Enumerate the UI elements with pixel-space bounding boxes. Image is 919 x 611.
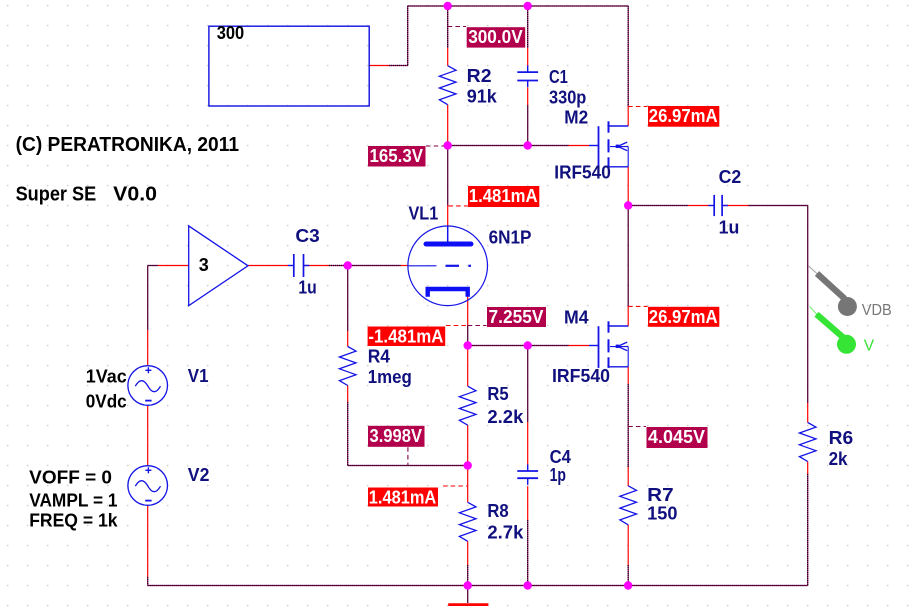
wire input column maroon [147, 266, 149, 331]
svg-text:1Vac: 1Vac [86, 366, 127, 386]
wire R6 bottom maroon [807, 474, 809, 586]
transistor M2 [589, 121, 628, 168]
wire C2 right maroon [749, 205, 808, 207]
resistor R7 [620, 486, 637, 525]
svg-text:VAMPL = 1: VAMPL = 1 [29, 490, 117, 510]
current 26.97mA (M4) [648, 307, 719, 327]
svg-text:1.481mA: 1.481mA [369, 488, 437, 508]
node 300.0V bias label [467, 27, 526, 47]
leader 1.481mA anode [449, 205, 468, 207]
junction gate node C1 [524, 141, 532, 149]
wire cathode drop maroon [467, 326, 469, 346]
wire C4 bottom red [527, 486, 529, 520]
wire C2 left maroon [628, 205, 688, 207]
resistor R5 [459, 386, 476, 425]
svg-text:1meg: 1meg [368, 367, 412, 387]
capacitor C3 [288, 254, 309, 277]
junction M2 source / C2 [624, 201, 632, 209]
svg-text:3: 3 [199, 255, 209, 275]
svg-text:300: 300 [217, 23, 244, 43]
svg-text:(C) PERATRONIKA, 2011: (C) PERATRONIKA, 2011 [16, 134, 239, 156]
junction ground rail R8 [464, 581, 472, 589]
wire C1 bottom lead maroon [527, 105, 529, 145]
current 1.481mA (cathode) [368, 488, 438, 507]
wire feedback link bottom [348, 465, 468, 467]
leader 300.0V [448, 26, 466, 28]
wire R8 top lead [467, 466, 469, 503]
svg-text:6N1P: 6N1P [489, 228, 532, 248]
wire C2 right red [723, 205, 749, 207]
ground [448, 586, 488, 605]
resistor R8 [459, 502, 476, 541]
wire R4 top maroon [347, 266, 349, 332]
svg-text:V1: V1 [188, 366, 209, 386]
wire node gate M2 (red) [569, 145, 590, 147]
wire C3 right red [304, 265, 330, 267]
wire C2 left red [688, 205, 708, 207]
current -1.481mA (grid) [368, 327, 446, 347]
svg-text:1u: 1u [719, 218, 740, 238]
source box B1 (300V supply) [209, 26, 369, 106]
wire source box feed (maroon part) [389, 65, 408, 67]
svg-text:V0.0: V0.0 [113, 184, 157, 206]
leader 7.255V [468, 325, 487, 327]
wire V1 top lead red [147, 330, 149, 366]
svg-text:M4: M4 [564, 308, 589, 328]
svg-text:330p: 330p [549, 88, 586, 108]
svg-text:-1.481mA: -1.481mA [368, 327, 443, 347]
wire C1 top lead upper [527, 6, 529, 48]
svg-text:91k: 91k [467, 86, 498, 106]
svg-text:IRF540: IRF540 [554, 163, 611, 183]
wire node gate M4 (red) [569, 345, 590, 347]
svg-text:Super SE: Super SE [16, 184, 97, 206]
probe V [810, 307, 875, 355]
svg-text:R4: R4 [368, 346, 390, 366]
wire R4 top red [347, 331, 349, 347]
wire source box feed (red part) [369, 65, 389, 67]
node 3.998V bias label [368, 426, 425, 447]
wire M2 drain maroon [627, 6, 629, 107]
wire V1-V2 link red [147, 405, 149, 465]
leader 26.97mA M2 [628, 106, 647, 108]
wire top supply rail [408, 5, 629, 7]
wire R2 bottom lead [447, 105, 449, 146]
svg-text:R7: R7 [647, 485, 674, 505]
svg-text:R6: R6 [829, 428, 854, 448]
svg-text:FREQ = 1k: FREQ = 1k [29, 510, 118, 530]
wire V2 bottom red [147, 505, 149, 577]
leader 165.3V [426, 145, 444, 147]
wire M2 drain red [627, 107, 629, 127]
capacitor C2 [708, 195, 728, 216]
wire C4 top red [527, 422, 529, 465]
junction C3 / R4 [344, 261, 352, 269]
wire cathode drop red [467, 297, 469, 326]
svg-text:1.481mA: 1.481mA [469, 186, 538, 206]
svg-text:165.3V: 165.3V [370, 146, 424, 166]
svg-text:C4: C4 [550, 447, 571, 467]
svg-text:3.998V: 3.998V [370, 426, 423, 446]
wire M4 source to R7 maroon [627, 384, 629, 467]
wire grid feed red [401, 265, 409, 267]
svg-text:V: V [864, 338, 875, 355]
wire C4 top maroon [527, 346, 529, 423]
wire R8 bottom maroon [467, 565, 469, 586]
wire R7 bottom maroon [627, 565, 629, 586]
wire buffer out to C3 red [248, 265, 288, 267]
svg-text:26.97mA: 26.97mA [649, 307, 718, 327]
svg-text:1p: 1p [550, 465, 566, 485]
wire grid feed maroon [348, 265, 401, 267]
svg-text:VOFF = 0: VOFF = 0 [29, 467, 112, 487]
wire C3 to node maroon [329, 265, 348, 267]
svg-text:150: 150 [647, 504, 677, 524]
wire R5 top lead [467, 346, 469, 387]
wire buffer input maroon [148, 265, 158, 267]
capacitor C1 [517, 66, 538, 88]
probe VDB [809, 266, 892, 319]
capacitor C4 [517, 464, 538, 484]
svg-text:C2: C2 [719, 167, 742, 187]
wire node gate M2 (maroon) [448, 145, 569, 147]
wire output drop maroon [807, 206, 809, 404]
node 7.255V bias label [487, 307, 546, 327]
node 165.3V bias label [368, 146, 426, 167]
wire R8 bottom lead red [467, 541, 469, 565]
wire V2 bottom maroon [147, 577, 149, 586]
svg-text:2.7k: 2.7k [487, 523, 524, 543]
wire M4 source red [627, 367, 629, 384]
leader 3.998V [407, 447, 409, 465]
svg-text:R8: R8 [487, 501, 508, 521]
wire anode drop red [447, 206, 449, 227]
svg-text:300.0V: 300.0V [468, 27, 523, 47]
wire R2 top lead upper [447, 6, 449, 48]
svg-text:4.045V: 4.045V [648, 427, 705, 447]
source V2 [128, 466, 168, 506]
wire C1 top lead lower [527, 48, 529, 66]
leader 26.97mA M4 [628, 305, 647, 307]
wire R2 top lead lower [447, 48, 449, 66]
svg-text:26.97mA: 26.97mA [649, 106, 718, 126]
resistor R6 [799, 423, 816, 462]
wire supply drop to source box [407, 6, 409, 66]
svg-text:0Vdc: 0Vdc [86, 392, 127, 412]
svg-text:VL1: VL1 [409, 203, 439, 223]
resistor R2 [439, 66, 456, 105]
wire node gate M4 (maroon) [468, 345, 569, 347]
svg-text:M2: M2 [564, 107, 588, 127]
leader 1.481mA cathode [443, 485, 468, 487]
leader 4.045V [628, 426, 646, 428]
junction ground rail R7 [624, 581, 632, 589]
svg-text:IRF540: IRF540 [552, 366, 610, 386]
wire bottom ground rail [148, 585, 808, 587]
junction ground rail C4 [524, 581, 532, 589]
triode VL1 [408, 226, 488, 306]
wire M2 source to C2 node [627, 167, 629, 206]
wire R4 bottom maroon [347, 402, 349, 466]
svg-text:1u: 1u [298, 277, 316, 297]
wire M4 drain maroon [627, 206, 629, 307]
transistor M4 [589, 321, 628, 368]
junction R5-R8 / R4 [464, 461, 472, 469]
source V1 [128, 366, 168, 406]
wire R6 top lead red [807, 403, 809, 423]
junction gate node left [444, 141, 452, 149]
junction cathode node [464, 341, 472, 349]
wire R7 bottom lead red [627, 525, 629, 565]
current 1.481mA (anode) [468, 186, 539, 207]
wire anode drop maroon [447, 146, 449, 206]
svg-text:V2: V2 [188, 465, 210, 485]
svg-text:R5: R5 [487, 384, 508, 404]
leader -1.481mA [446, 325, 468, 327]
junction rail-R2 [444, 2, 452, 10]
svg-text:VDB: VDB [862, 302, 892, 319]
wire C4 bottom maroon [527, 520, 529, 586]
svg-text:2.2k: 2.2k [487, 407, 524, 427]
junction C4 top [524, 341, 532, 349]
svg-text:7.255V: 7.255V [489, 307, 544, 327]
wire R6 bottom lead red [807, 462, 809, 475]
node 4.045V bias label [647, 427, 708, 448]
svg-text:2k: 2k [829, 449, 849, 469]
wire C1 bottom lead red [527, 87, 529, 105]
svg-text:R2: R2 [467, 66, 492, 86]
wire R4 bottom red [347, 386, 349, 403]
wire R7 top lead red [627, 467, 629, 486]
svg-text:C1: C1 [549, 67, 568, 87]
svg-text:C3: C3 [295, 226, 319, 246]
buffer E1 (gain 3) [189, 226, 248, 306]
wire buffer input red [158, 265, 189, 267]
resistor R4 [339, 347, 356, 386]
wire R5 bottom lead [467, 425, 469, 465]
wire M4 drain red [627, 306, 629, 326]
current 26.97mA (M2) [648, 106, 719, 127]
junction rail-C1 [524, 2, 532, 10]
